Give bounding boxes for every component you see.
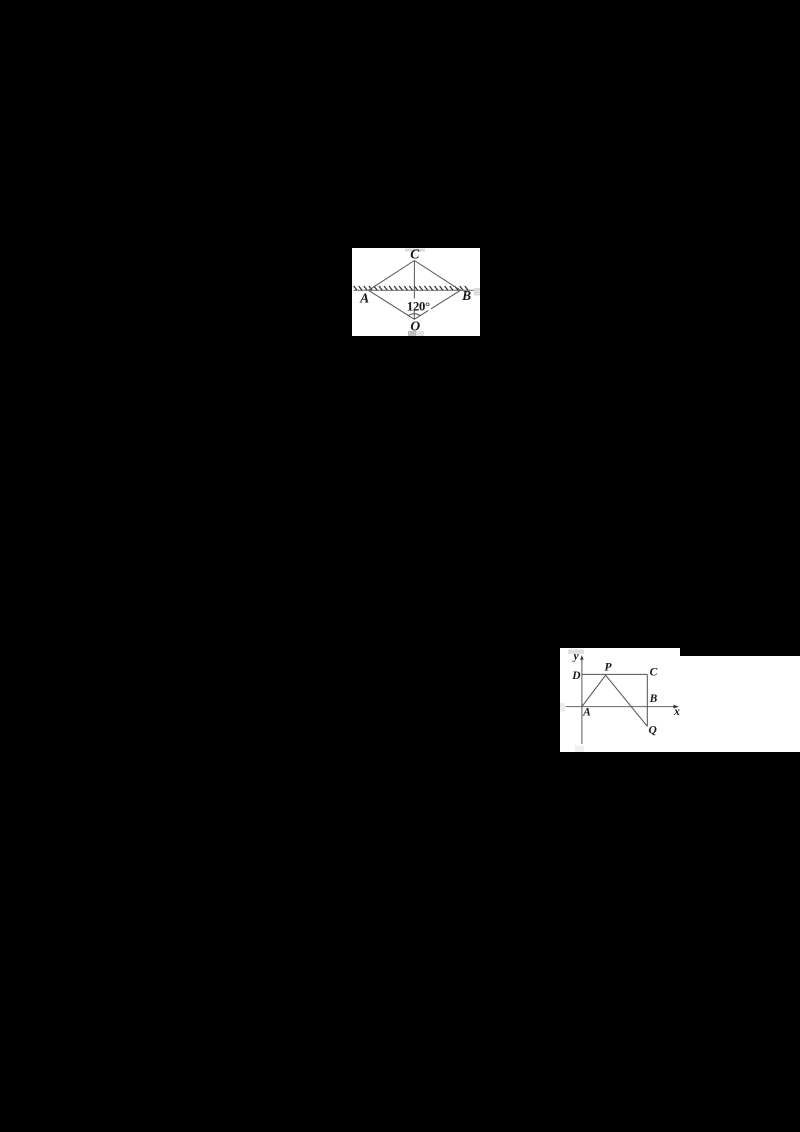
svg-text:B: B xyxy=(461,288,471,303)
svg-text:P: P xyxy=(604,662,612,674)
svg-text:B: B xyxy=(649,693,658,705)
svg-text:x: x xyxy=(673,706,680,718)
svg-text:A: A xyxy=(359,290,369,305)
svg-text:Q: Q xyxy=(649,724,657,736)
svg-text:A: A xyxy=(582,706,591,718)
svg-text:O: O xyxy=(410,318,420,333)
svg-text:120°: 120° xyxy=(407,298,430,313)
svg-text:C: C xyxy=(650,667,658,679)
svg-text:C: C xyxy=(410,248,420,262)
svg-text:y: y xyxy=(571,651,579,663)
svg-text:D: D xyxy=(571,670,581,682)
